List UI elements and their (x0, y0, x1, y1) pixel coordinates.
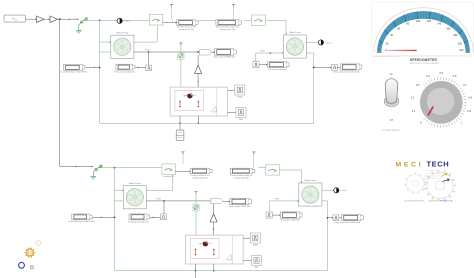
wire J4 tap down to SQX (148, 51, 150, 65)
block PWM1 (235, 85, 245, 98)
wire SW2 output net (104, 167, 162, 169)
svg-text:REV: REV (239, 119, 244, 121)
svg-text:0.2: 0.2 (411, 96, 415, 100)
block SQ6b (333, 215, 339, 221)
svg-text:FOR: FOR (420, 201, 425, 203)
logo MECITECH wordmark (396, 159, 450, 168)
display D4 (214, 49, 236, 59)
node T3 tag (179, 43, 182, 45)
toggle switch lever (384, 79, 399, 107)
gauge outer red arc (374, 8, 473, 53)
node T2b tag (252, 152, 255, 168)
svg-text:PWM: PWM (253, 244, 258, 246)
svg-text:220: 220 (459, 49, 464, 52)
display D2b (190, 168, 212, 179)
wire V2b tap to display D6b (327, 217, 333, 219)
node J2b junction (114, 167, 116, 169)
svg-text:Lamp 2: Lamp 2 (325, 42, 333, 44)
wire main input line (25, 18, 36, 20)
wire V1b tap to display D1b (93, 217, 116, 219)
icon gold gear (25, 248, 35, 258)
display D3b (230, 168, 255, 179)
display D4b (229, 198, 251, 208)
tag TAG4 (200, 49, 212, 55)
svg-text:voltage (rpm) Top: voltage (rpm) Top (220, 28, 236, 31)
wire J3b down to amp A1b (213, 204, 215, 214)
wire M2b right-bottom return V2b (322, 201, 328, 271)
node J1 junction (59, 18, 61, 20)
gauge needle (387, 50, 417, 51)
wire HB1 to battery B1 (179, 116, 181, 130)
label TR06 bottom right (275, 199, 280, 201)
svg-text:ROCKER SWITCH: ROCKER SWITCH (383, 130, 401, 132)
wire HB2 to battery B2 (195, 264, 197, 278)
wire TAG4 to display D4 (212, 51, 215, 53)
wire HB1 right-bottom down (197, 116, 199, 124)
switch SW2 (95, 165, 104, 171)
display D6b (334, 214, 363, 224)
svg-text:Off: Off (390, 119, 393, 122)
svg-text:MECI: MECI (396, 161, 424, 168)
node T1 tag (170, 5, 173, 23)
svg-text:Motor speed (RPM) Top: Motor speed (RPM) Top (214, 55, 236, 58)
display DXb (128, 214, 149, 224)
svg-text:0.1: 0.1 (412, 109, 416, 113)
node T2 tag (232, 5, 235, 20)
wire U2 to motor M2 (266, 20, 287, 34)
icon gray dot (30, 266, 33, 269)
wire HB2 port2 to PWM2b (243, 259, 251, 261)
tag TAG4b (211, 198, 223, 204)
display D5 (268, 62, 290, 71)
label switch On (390, 73, 394, 76)
svg-text:Motor Pump: Motor Pump (305, 179, 317, 182)
sensor S1 (178, 52, 184, 59)
svg-text:TR06: TR06 (275, 199, 280, 201)
wire SQXb to display DXb (150, 217, 160, 219)
wire SQX to display DX (136, 67, 146, 69)
wire S1 to HB1 (180, 59, 182, 87)
display D1 (60, 65, 86, 74)
logo gear art (404, 170, 456, 202)
converter U2 (251, 15, 265, 25)
knob value labels (411, 71, 473, 125)
converter U1b (162, 164, 175, 175)
wire M2b left input (269, 200, 299, 202)
wire M2b right-top to lamp L2b (322, 189, 334, 191)
svg-text:0.4: 0.4 (426, 74, 430, 78)
knob tick ring (424, 77, 467, 127)
subsystem HB2 H-Bridge (186, 235, 244, 264)
block PWM2b (252, 256, 262, 269)
svg-text:TR06: TR06 (145, 50, 150, 52)
wire into U2b (259, 167, 266, 169)
block SQXb (160, 214, 166, 220)
label TR06 top right (260, 51, 265, 53)
icon navy ring (19, 262, 25, 268)
svg-text:0.6: 0.6 (453, 74, 457, 78)
lamp L2 (318, 40, 323, 45)
wire M1b right-top to U1b (146, 175, 172, 191)
display DX (114, 64, 135, 73)
svg-text:140: 140 (437, 23, 442, 26)
block SQ2b (266, 212, 272, 218)
label U1b (163, 176, 175, 178)
wire A1 to H-bridge HB1 (197, 73, 199, 88)
wire M1 right-bottom to J3 (134, 51, 199, 53)
svg-text:REV: REV (254, 267, 259, 269)
svg-text:Pump output flow (calibrated): Pump output flow (calibrated) (333, 71, 359, 74)
display D2 (176, 20, 198, 31)
svg-text:0.5: 0.5 (439, 71, 443, 75)
knob pointer (428, 107, 433, 115)
wire motor M1 bottom-left to V1 (100, 51, 111, 53)
node J2 junction (99, 19, 101, 21)
wire TAG4b to display D4b (223, 201, 230, 203)
wire M2 tap down to SQ2 (255, 53, 257, 62)
subsystem HB1 H-Bridge (170, 87, 228, 116)
svg-text:0: 0 (420, 121, 422, 125)
motor M2 Motor Pump (283, 31, 306, 58)
block SQ2 (253, 62, 259, 68)
switch SW1 (80, 18, 89, 24)
knob body (420, 81, 463, 124)
svg-text:0.3: 0.3 (416, 83, 420, 87)
svg-text:SPEEDOMETER: SPEEDOMETER (410, 58, 438, 62)
wire V1 to motor M1 top-left (100, 41, 111, 43)
label SPEEDOMETER (410, 58, 438, 62)
wire A1b to H-bridge HB2 (213, 222, 215, 236)
wire M2b tap down to SQ2b (268, 201, 270, 212)
wire G2 to switch (57, 18, 78, 20)
amp A1b (210, 214, 217, 222)
svg-text:voltage (rpm) Bot: voltage (rpm) Bot (234, 176, 250, 179)
svg-text:Simulink-PS: Simulink-PS (163, 176, 175, 178)
svg-text:PWM: PWM (237, 96, 242, 98)
svg-text:Motor Pump: Motor Pump (289, 31, 301, 34)
svg-text:0.9: 0.9 (467, 109, 471, 113)
sensor S1b (193, 204, 199, 211)
wire V1 tap to display D1 (85, 67, 100, 69)
wire V2 tap to display D6 (313, 67, 332, 69)
svg-text:voltage (rpm) Bot: voltage (rpm) Bot (192, 176, 208, 179)
svg-text:TR06: TR06 (260, 51, 265, 53)
battery B1 (176, 130, 184, 140)
wire bottom return W1 (100, 122, 314, 124)
wire SW2 stem (93, 171, 95, 177)
wire net vertical V1b (114, 168, 116, 271)
lamp L2b (334, 188, 339, 193)
wire U1 to display D2 (163, 22, 177, 24)
svg-text:voltage (rpm) Top: voltage (rpm) Top (178, 28, 194, 31)
gain G1 (37, 16, 45, 23)
display D6 (333, 64, 362, 74)
lamp L1 (117, 18, 122, 23)
svg-text:ENGINEERING: ENGINEERING (405, 201, 421, 203)
wire SQ6 to D6 (337, 66, 340, 68)
node T1b tag (181, 152, 184, 164)
gauge number labels (385, 20, 464, 52)
block SQX (146, 65, 152, 71)
amp A1 (195, 65, 202, 73)
svg-text:200: 200 (458, 42, 463, 45)
svg-text:Motor speed (RPM) Bot: Motor speed (RPM) Bot (229, 205, 250, 208)
wire SQ6b to D6b (339, 217, 342, 219)
wire SQ2b to display D5b (272, 214, 280, 216)
svg-text:Pump speed calibrated: Pump speed calibrated (114, 70, 134, 73)
wire V1b to motor M1b top-left (115, 190, 124, 192)
gauge ticks (377, 11, 470, 52)
svg-text:Pump speed calibrated: Pump speed calibrated (128, 220, 148, 223)
logo tagline (405, 200, 453, 203)
svg-text:160: 160 (446, 28, 451, 31)
wire into U2 (244, 19, 251, 21)
label TR06 top left (145, 50, 150, 52)
wire M2 left input (256, 52, 283, 54)
panel gauge card (372, 2, 474, 57)
svg-text:Lamp 1: Lamp 1 (124, 21, 132, 23)
label knob panel title (410, 63, 440, 65)
wire D2 to D3 (199, 19, 216, 21)
wire net vertical V1 (99, 20, 101, 123)
svg-text:0.8: 0.8 (468, 96, 472, 100)
motor M1b Motor Pump (123, 182, 146, 209)
wire HB2 port1 to PWM1b (243, 237, 250, 239)
motor M2b Motor Pump (299, 179, 322, 206)
wire M1b right-bottom to J3b (146, 200, 214, 202)
svg-text:TR06: TR06 (156, 199, 161, 201)
label TR06 bottom left (156, 199, 161, 201)
wire HB1 port2 to PWM2 (228, 111, 236, 113)
svg-text:PRODUCTS: PRODUCTS (440, 201, 453, 203)
svg-text:Pump flow calibrated: Pump flow calibrated (281, 218, 300, 221)
label L2 (325, 42, 333, 44)
svg-text:Input Shaft Speed Bot (RPM): Input Shaft Speed Bot (RPM) (69, 220, 95, 223)
svg-text:0.7: 0.7 (463, 83, 467, 87)
svg-text:Motor Pump: Motor Pump (129, 182, 141, 185)
svg-text:180: 180 (453, 34, 458, 37)
wire J3 down to amp A1 (197, 55, 199, 65)
wire HB1 port1 to PWM1 (228, 89, 235, 91)
node T3b tag (194, 192, 197, 194)
label L1 (124, 21, 132, 23)
gauge blue band (377, 11, 470, 52)
wire S1b to HB2 (195, 211, 197, 235)
wire M2 right-bottom return V2 (306, 53, 313, 123)
svg-text:120: 120 (427, 20, 432, 23)
motor M1 Motor Pump (111, 31, 134, 58)
svg-text:INPUT DUTY CYCLE CONTROL: INPUT DUTY CYCLE CONTROL (410, 63, 440, 65)
wire J1 down to bottom section (59, 19, 61, 166)
label switch Off (390, 119, 393, 122)
svg-text:Input Shaft Speed Top (RPM): Input Shaft Speed Top (RPM) (60, 71, 86, 74)
wire into bottom section (60, 166, 93, 168)
display D5b (280, 212, 302, 222)
wire U2b to motor M2b (280, 170, 303, 183)
svg-text:1: 1 (461, 121, 463, 125)
gauge baseline (373, 55, 473, 58)
converter U2b (266, 165, 280, 175)
display D1b (69, 214, 95, 223)
svg-text:On: On (390, 73, 394, 76)
svg-text:Pump flow calibrated: Pump flow calibrated (268, 68, 287, 71)
block input source (4, 15, 25, 22)
ground G-top (76, 30, 81, 33)
wire T3 to sensor S1 (180, 45, 182, 52)
block PWM1b (250, 233, 260, 246)
block SQ6 (332, 64, 338, 70)
icon faint circle (36, 241, 41, 246)
wire J4b tap down to SQXb (163, 200, 165, 214)
label L2b (340, 190, 348, 192)
label rocker switch (383, 130, 401, 132)
ground G-bottom (91, 176, 96, 179)
wire bottom return W2 (115, 270, 328, 272)
wire HB2 right-bottom down (213, 264, 215, 272)
svg-text:Motor Pump: Motor Pump (117, 31, 129, 34)
svg-text:AMAZING: AMAZING (429, 200, 439, 203)
svg-text:100: 100 (416, 20, 421, 23)
wire motor M1b bottom-left to V1b (115, 200, 124, 202)
converter U1 (149, 14, 162, 25)
wire SW1 output net (90, 19, 150, 21)
display D3 (216, 20, 241, 31)
wire T3b to sensor S1b (195, 194, 197, 204)
wire M2 right-top to lamp L2 (306, 41, 318, 43)
wire SQ2 to display D5 (259, 64, 268, 66)
wire SW1 stem (79, 23, 81, 30)
gain G2 (50, 16, 58, 23)
svg-text:Pump output flow (calibrated): Pump output flow (calibrated) (334, 221, 360, 224)
wire G1 to G2 (44, 18, 50, 20)
wire U1b to display D2b (175, 171, 190, 173)
svg-text:Lamp 4: Lamp 4 (340, 190, 348, 192)
block PWM2 (236, 108, 246, 121)
wire M1 right-top to U1 (134, 25, 157, 42)
svg-text:TECH: TECH (427, 159, 450, 168)
